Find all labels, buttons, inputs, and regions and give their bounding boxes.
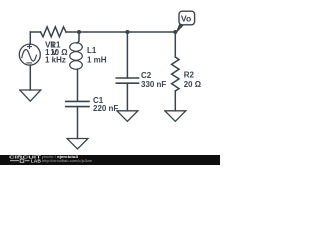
capacitor C2 (116, 78, 138, 83)
svg-text:photo / ejercicio3: photo / ejercicio3 (42, 155, 78, 159)
svg-text:Vo: Vo (181, 14, 192, 23)
wire Vo node to R2 (174, 32, 176, 57)
label C1 (93, 96, 118, 113)
wire R1 to Vo node (66, 31, 175, 33)
node B junction dot (125, 30, 129, 34)
ground (C2) (117, 111, 138, 122)
svg-text:20 Ω: 20 Ω (184, 80, 202, 89)
svg-text:http://circuitlab.com/c/jc3zw: http://circuitlab.com/c/jc3zw (42, 159, 93, 163)
ground (C1) (67, 139, 88, 150)
node A junction dot (77, 30, 81, 34)
node Vo junction dot (173, 30, 177, 34)
ground (R2) (165, 111, 186, 122)
wire source riser (29, 32, 31, 44)
wire C2 to ground (126, 83, 128, 111)
inductor L1 (77, 32, 79, 43)
wire R2 to ground (174, 91, 176, 111)
svg-text:220 nF: 220 nF (93, 104, 118, 113)
CircuitLab logo text LAB (31, 158, 41, 163)
CircuitLab logo text CIRCUIT (9, 155, 41, 161)
watermark bar (0, 155, 220, 165)
svg-text:C2: C2 (141, 71, 152, 80)
voltage source V1 (19, 44, 40, 65)
resistor R1 (41, 27, 67, 37)
wire C1 to ground (77, 107, 79, 139)
ground (source) (20, 90, 41, 101)
svg-text:LAB: LAB (31, 158, 41, 163)
resistor R2 (172, 57, 179, 91)
watermark url text (42, 159, 93, 163)
svg-text:1 mH: 1 mH (87, 55, 107, 64)
wire source to ground (29, 65, 31, 90)
svg-text:L1: L1 (87, 46, 97, 55)
label R1 (50, 41, 68, 58)
CircuitLab logo battery glyph (10, 159, 30, 162)
Vo probe flag box (179, 11, 195, 25)
svg-text:330 nF: 330 nF (141, 80, 166, 89)
svg-text:10 Ω: 10 Ω (50, 48, 68, 57)
watermark photo text (42, 155, 78, 159)
Vo probe flag tail (176, 25, 183, 33)
label C2 (141, 71, 166, 89)
wire C2 node down (126, 32, 128, 78)
label L1 (87, 46, 107, 64)
label V1 (45, 41, 66, 65)
label R2 (184, 70, 202, 89)
wire L1 to C1 (77, 69, 79, 101)
wire top left segment (30, 31, 40, 33)
svg-text:R2: R2 (184, 70, 195, 79)
capacitor C1 (66, 101, 89, 106)
